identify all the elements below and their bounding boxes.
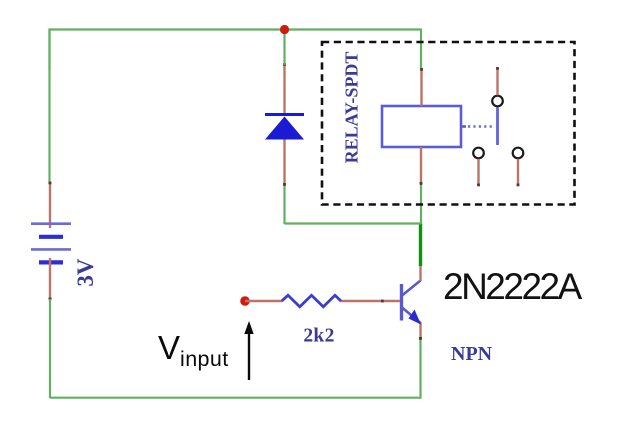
actuation dotted link <box>461 125 466 128</box>
wire left lower <box>49 299 51 398</box>
contact circle NO <box>513 148 524 159</box>
wire diode bottom <box>283 184 285 224</box>
wire node to diode (horizontal) <box>285 222 422 224</box>
battery pin bottom <box>49 258 51 299</box>
collector pin <box>419 265 421 281</box>
battery pin top <box>49 182 51 228</box>
svg-text:3V: 3V <box>73 258 98 287</box>
diode upper pin <box>283 64 285 113</box>
contact circle common <box>492 96 503 107</box>
pin end dot <box>420 182 423 185</box>
common pin <box>496 68 498 95</box>
diode D1 <box>265 115 304 140</box>
pin end dot <box>420 68 423 71</box>
armature (common pole) <box>496 108 499 146</box>
relay dashed enclosure <box>322 42 575 205</box>
svg-text:Vinput: Vinput <box>158 329 229 371</box>
wire thick dark green (collector node) <box>419 224 422 267</box>
emitter pin <box>419 322 421 339</box>
transistor Q1 2N2222A <box>402 281 421 324</box>
relay coil K1 <box>382 106 461 147</box>
svg-text:2N2222A: 2N2222A <box>443 266 583 307</box>
pin end dot <box>283 63 286 66</box>
wire left upper <box>48 30 50 185</box>
pin end dot base <box>381 300 384 303</box>
junction dot <box>280 25 289 34</box>
wire top rail <box>50 30 422 70</box>
svg-text:2k2: 2k2 <box>303 326 334 347</box>
svg-text:RELAY-SPDT: RELAY-SPDT <box>342 52 362 164</box>
base wire right of resistor <box>341 300 401 302</box>
NO pin <box>517 159 519 185</box>
contact circle NC <box>473 148 484 159</box>
pin end dot <box>283 183 286 186</box>
NC pin <box>477 159 479 185</box>
wire bottom rail <box>50 338 421 398</box>
pin end dot <box>496 67 499 70</box>
resistor R1 <box>282 295 341 307</box>
input terminal dot <box>240 296 250 306</box>
wire relay coil bottom to node <box>420 184 422 224</box>
coil bottom pin <box>420 147 422 184</box>
pin end dot <box>517 184 520 187</box>
Vinput arrow <box>248 333 250 380</box>
pin end dot <box>49 182 52 185</box>
pin end dot <box>477 184 480 187</box>
emitter arrowhead <box>409 310 422 325</box>
coil top pin <box>420 69 422 106</box>
svg-text:NPN: NPN <box>451 343 493 365</box>
battery B1 <box>31 224 71 263</box>
wire diode top <box>283 30 285 66</box>
base wire <box>245 300 283 302</box>
pin end dot <box>419 337 422 340</box>
pin end dot <box>49 298 52 301</box>
diode lower pin <box>283 139 285 185</box>
